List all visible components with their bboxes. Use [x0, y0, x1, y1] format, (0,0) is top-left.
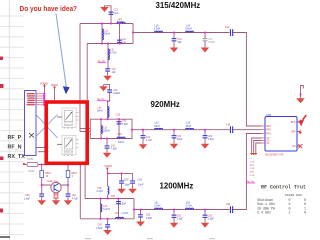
svg-text:100pF: 100pF [113, 92, 120, 95]
svg-text:R32: R32 [250, 172, 255, 174]
svg-text:1.5pF: 1.5pF [177, 218, 184, 221]
capacitor C40 rung [117, 121, 122, 122]
wire rung C12 [119, 24, 121, 44]
ground C91 [64, 200, 72, 205]
ground C13 [103, 76, 112, 81]
crossover line B [35, 115, 58, 138]
wire chip V3 [252, 138, 262, 152]
wire VDDR drop [54, 87, 56, 100]
wire chip RFC riser [301, 86, 304, 96]
inductor L61 [116, 217, 124, 218]
svg-text:Do you have idea?: Do you have idea? [20, 6, 78, 13]
ground C50 [117, 189, 126, 194]
svg-text:5pF: 5pF [178, 41, 183, 44]
wire 315 filter line [133, 32, 230, 34]
ground 315 shunt2 [201, 48, 209, 53]
inductor L1b [186, 31, 194, 32]
capacitor C20 [107, 89, 112, 90]
inductor L41 [101, 204, 102, 212]
svg-text:4.7pF: 4.7pF [146, 139, 153, 142]
annotation arrow at RFC pin (thick red) [298, 115, 306, 126]
svg-text:OPEN: OPEN [208, 41, 215, 44]
capacitor C2x top [109, 12, 114, 13]
wire switch out stub a [80, 128, 90, 130]
wire L12 chain [107, 44, 109, 69]
svg-text:16nH: 16nH [97, 110, 103, 113]
svg-text:0.5pF: 0.5pF [146, 217, 153, 220]
svg-text:R33: R33 [250, 165, 255, 167]
ground C60 [103, 230, 112, 235]
wire 920 shunt2 stub [204, 130, 206, 135]
svg-text:4.7pF: 4.7pF [72, 197, 79, 200]
resistor array pull arrows V1-V3 [250, 152, 257, 155]
svg-text:40nH: 40nH [118, 141, 124, 144]
svg-text:2.7nH: 2.7nH [185, 205, 192, 208]
crossover line A [36, 115, 58, 139]
wire rung L11 [101, 24, 103, 44]
ground R emitter [52, 200, 60, 205]
capacitor C62 shunt [172, 215, 177, 216]
wire bias row to 1200 loop [38, 165, 80, 219]
power flag VDDR top [51, 84, 58, 88]
svg-text:SWITCH: SWITCH [65, 124, 73, 126]
resistor CR40 (horizontal) [23, 162, 38, 172]
wire 920 to chip [233, 129, 262, 131]
ground C41 [103, 153, 111, 158]
svg-text:C50: C50 [124, 179, 129, 182]
capacitor C11 open labels (gray) [208, 38, 215, 44]
wire 1200 filter line [134, 209, 230, 211]
capacitor C52 rung [116, 201, 121, 202]
svg-text:2.4nH: 2.4nH [97, 190, 104, 193]
svg-text:C30: C30 [116, 113, 121, 116]
wire 920 rung L31 [100, 119, 102, 138]
bottom-left dark page mark [0, 236, 10, 238]
wire vertical to switch1 [79, 24, 81, 132]
svg-text:15pF: 15pF [177, 138, 183, 141]
connector P20 pins [27, 93, 46, 106]
ground 1200 shunt1 [170, 223, 178, 228]
wire bias input row [25, 164, 27, 166]
wire 1200 loop bottom [80, 218, 134, 220]
annotation arrow line [56, 14, 66, 88]
capacitor C41 below loop [105, 145, 110, 146]
wire header ctl b [38, 151, 49, 153]
connector no-connect X [29, 133, 34, 138]
capacitor C14 series [230, 29, 231, 36]
wire C2x branch [104, 85, 110, 90]
ground C20 [99, 86, 108, 91]
wire 920 loop [90, 119, 132, 138]
capacitor C10 shunt [172, 38, 177, 39]
wire 315 bus2 [87, 43, 133, 45]
wire R60 stubs [67, 165, 69, 194]
svg-text:26nH: 26nH [104, 33, 110, 36]
svg-text:RF Control Trut: RF Control Trut [261, 184, 306, 190]
svg-text:C14: C14 [225, 26, 230, 29]
ground 920 shunt2 [201, 144, 209, 149]
wire transistor base row [42, 184, 68, 186]
wire 315 shunt2 stub [204, 33, 206, 39]
inductor L12 [108, 49, 109, 60]
net stub arrow at RF0 pin [298, 130, 302, 135]
wire 1200 shunt C61 stub [140, 210, 142, 215]
svg-text:5.6nH: 5.6nH [154, 27, 161, 30]
svg-text:3.3nH: 3.3nH [154, 205, 161, 208]
ground at top hook [100, 7, 109, 12]
svg-text:RF_N: RF_N [8, 145, 22, 151]
capacitor C13 [105, 68, 110, 69]
svg-text:RFC: RFC [291, 122, 296, 124]
svg-text:0: 0 [251, 158, 253, 160]
switch U11 [57, 135, 79, 155]
svg-text:1.5pF: 1.5pF [120, 202, 127, 205]
inductor L21 [117, 22, 125, 23]
wire C50 stub [121, 173, 123, 180]
ground 1200 shunt2 [201, 223, 209, 228]
svg-text:1.5pF: 1.5pF [208, 138, 215, 141]
wire chip V2 [254, 141, 262, 153]
wire 315 bus1 [80, 23, 133, 25]
svg-text:6.2nH: 6.2nH [103, 208, 110, 211]
capacitor C32 shunt [172, 135, 177, 136]
DNP mark 2 [97, 99, 106, 101]
capacitor C50 [119, 180, 124, 181]
svg-text:C64: C64 [226, 203, 231, 206]
svg-text:L61: L61 [115, 212, 120, 215]
svg-text:L40: L40 [118, 133, 123, 136]
wire 1200 C60 below loop [107, 219, 109, 224]
ground C61 [136, 222, 145, 227]
wire 315 to chip [233, 33, 262, 127]
wire vertical bus2 drop [86, 44, 88, 101]
connector P20 body [25, 91, 37, 156]
DNP mark near table [247, 181, 255, 183]
DNP mark 1 [98, 61, 107, 63]
svg-text:1pF: 1pF [112, 71, 117, 74]
wire chip RF0 stub [297, 131, 300, 133]
inductor L51 [155, 208, 163, 209]
svg-text:RF2: RF2 [267, 130, 272, 132]
power flag VDDIN [40, 82, 48, 86]
svg-text:R504: R504 [45, 173, 51, 175]
wire C51 stub [132, 173, 134, 180]
svg-text:1.5pF: 1.5pF [208, 218, 215, 221]
ground C51 [128, 189, 137, 194]
svg-text:2.4nH: 2.4nH [122, 212, 129, 215]
wire 1200 loop top L [85, 164, 134, 199]
wire 315 loop right side [132, 24, 134, 44]
svg-text:10pF: 10pF [125, 183, 131, 186]
svg-text:315/420MHz: 315/420MHz [156, 1, 201, 10]
svg-text:2.2K: 2.2K [250, 168, 255, 170]
svg-text:43: 43 [46, 176, 49, 178]
wire transistor emitter [55, 192, 57, 195]
wire VDDR stub [106, 168, 108, 173]
svg-text:RF0: RF0 [291, 132, 296, 134]
wire 1200 to chip [233, 134, 262, 210]
table row lines [0, 16, 24, 234]
capacitor C11 open (gray) [203, 38, 208, 41]
svg-text:NC: NC [292, 146, 296, 148]
svg-text:7.5pF: 7.5pF [111, 148, 118, 151]
transistor Q1 [47, 181, 61, 193]
wire 1200 loop right [133, 199, 135, 219]
capacitor C51 [130, 180, 135, 181]
capacitor C34 series [230, 126, 231, 133]
wire 315 shunt1 stub [173, 33, 175, 39]
svg-text:1200MHz: 1200MHz [160, 181, 194, 190]
capacitor C63 shunt [203, 215, 208, 216]
svg-text:1pF: 1pF [122, 41, 127, 44]
wire 920 filter line [132, 129, 230, 131]
resistor R emitter (red striped) [54, 193, 58, 198]
wire L50 feed [107, 173, 109, 186]
svg-text:RX_TX: RX_TX [8, 154, 26, 160]
svg-text:920MHz: 920MHz [151, 100, 180, 109]
svg-text:8.7nH: 8.7nH [110, 52, 117, 55]
wire 920 C4x shunt below loop [106, 139, 108, 146]
wire 1200 rung L41 [100, 199, 102, 219]
resistor R50 [40, 171, 52, 178]
capacitor C64 series [230, 206, 231, 213]
ground C90 [38, 200, 47, 205]
capacitor C60 below loop [105, 224, 110, 225]
ground C31 [139, 144, 147, 149]
inductor L31 [101, 126, 102, 134]
svg-text:R607: R607 [71, 173, 77, 175]
wire 920 shunt1 stub [173, 130, 175, 135]
svg-text:4.7nH: 4.7nH [117, 21, 124, 24]
svg-text:2.2K: 2.2K [250, 175, 255, 177]
svg-text:2.2K: 2.2K [250, 161, 255, 163]
svg-text:1: 1 [289, 212, 291, 216]
svg-text:C51: C51 [138, 179, 143, 182]
svg-text:1pF: 1pF [114, 12, 119, 15]
bottom page tick marks [85, 238, 215, 239]
inductor L11 [102, 29, 103, 40]
svg-text:RF_P: RF_P [8, 135, 22, 141]
svg-text:10nF: 10nF [138, 183, 144, 186]
svg-text:C34: C34 [226, 123, 231, 126]
svg-text:0: 0 [72, 176, 74, 178]
svg-text:7.5pF: 7.5pF [122, 123, 129, 126]
inductor L30 [108, 107, 109, 118]
capacitor C33 shunt [203, 135, 208, 136]
wire R50 stubs [41, 165, 43, 194]
svg-text:VDDR: VDDR [104, 164, 111, 168]
capacitor C31 shunt [141, 135, 146, 136]
power arrow at chip RFC [296, 98, 305, 103]
capacitor C91 [66, 193, 71, 194]
svg-text:BGS13SN7-575: BGS13SN7-575 [266, 153, 285, 156]
svg-text:1.5pF: 1.5pF [24, 197, 31, 200]
inductor L40 [117, 137, 125, 138]
wire C2x to junction [108, 92, 110, 119]
wire 1200 shunt1 stub [173, 210, 175, 215]
wire 920 C3x branch [142, 130, 144, 136]
wire 1200 rung C52 [118, 199, 120, 219]
svg-text:5.6nH: 5.6nH [185, 27, 192, 30]
capacitor C90 [39, 193, 44, 194]
no-connect X at NC pin [298, 144, 302, 148]
wire chip V1 [256, 143, 262, 152]
wire L50 to loop [107, 195, 109, 199]
inductor L10 [155, 31, 163, 32]
svg-text:PD50: PD50 [28, 158, 35, 161]
ground 920 shunt1 [170, 144, 178, 149]
power flag VDDR mid [104, 164, 111, 169]
svg-text:15nH: 15nH [185, 125, 191, 128]
ground 315 shunt1 [170, 48, 178, 53]
inductor L62 [186, 208, 194, 209]
wire bias rail [108, 172, 133, 174]
wire 920 rung C40 [118, 119, 120, 138]
inductor L32 [155, 128, 163, 129]
annotation arrow head [63, 86, 70, 94]
wire 315 top hook [105, 6, 112, 24]
wire chip NC stub [297, 145, 300, 147]
wire header ctl a [36, 147, 49, 149]
svg-text:1.5pF: 1.5pF [96, 227, 103, 230]
svg-text:100nH: 100nH [103, 130, 110, 133]
svg-text:C52: C52 [111, 195, 116, 198]
resistor array labels [250, 158, 255, 177]
svg-text:18nH: 18nH [154, 125, 160, 128]
capacitor C12 [117, 40, 122, 41]
svg-text:CR40: CR40 [28, 170, 35, 173]
svg-text:2.4 GHz: 2.4 GHz [257, 212, 271, 216]
svg-text:D0028 D00.: D0028 D00. [285, 193, 304, 197]
svg-text:SWITCH: SWITCH [65, 152, 73, 154]
svg-text:RF1: RF1 [267, 134, 272, 136]
inductor L50 [108, 187, 109, 195]
capacitor C61 shunt [138, 214, 143, 215]
wire 1200 shunt2 stub [204, 210, 206, 215]
left edge clipped red text bits [0, 57, 4, 213]
annotation red box [46, 102, 87, 163]
resistor R60 [66, 171, 77, 178]
wire chip RFC stub [297, 120, 301, 123]
wire VDDIN drop [44, 85, 46, 100]
svg-text:RF3: RF3 [267, 126, 272, 128]
svg-text:0: 0 [304, 212, 306, 216]
wire switch out stub b [80, 131, 90, 133]
inductor L33 [186, 128, 194, 129]
table vertical rule [8, 0, 10, 240]
